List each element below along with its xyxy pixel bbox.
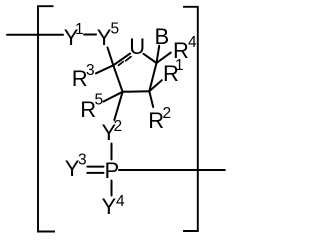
node Y1 — [64, 21, 84, 50]
svg-text:5: 5 — [111, 21, 120, 38]
node R3 — [72, 62, 95, 91]
svg-text:1: 1 — [175, 57, 184, 74]
node Y4 — [102, 193, 126, 219]
svg-text:2: 2 — [163, 105, 172, 122]
svg-text:3: 3 — [78, 152, 87, 169]
wire Y1-Y5 bond — [84, 34, 96, 36]
node R1 — [163, 57, 184, 86]
wire P chain bond (right) — [119, 169, 225, 171]
svg-text:Y: Y — [102, 194, 117, 219]
wire Y5-C2 bond — [108, 48, 114, 66]
wire ring bond C3-C4 — [123, 90, 150, 93]
wire R4-C5 bond — [157, 53, 171, 63]
wire C3-Y2 bond — [114, 92, 122, 120]
wire P-Y4 bond — [111, 181, 113, 196]
wire ring bond C4-C5 — [149, 63, 156, 91]
wire R5-C3 bond — [104, 92, 123, 102]
node Y3 — [65, 152, 87, 182]
wire Y3=P double bond lower — [87, 172, 103, 174]
node Y2 — [102, 118, 123, 145]
left bracket — [38, 6, 54, 231]
wire ring bond C2-C3 — [113, 65, 122, 92]
svg-text:4: 4 — [116, 193, 125, 210]
wire C2=U inner stroke a — [118, 62, 123, 66]
wire R1-C4 bond — [149, 80, 162, 91]
svg-text:3: 3 — [86, 62, 95, 79]
node U — [129, 34, 145, 59]
wire C2=U inner stroke b — [126, 57, 131, 61]
wire R2-C4 bond — [149, 91, 153, 107]
svg-text:4: 4 — [188, 34, 197, 51]
wire R3-C2 bond — [96, 65, 113, 73]
node R2 — [148, 105, 171, 133]
wire Y2-P bond — [111, 144, 113, 160]
svg-text:P: P — [105, 158, 120, 183]
node R4 — [173, 34, 197, 63]
node P — [105, 158, 120, 183]
svg-text:5: 5 — [95, 92, 104, 109]
wire ring bond C2=U main — [113, 54, 130, 66]
node Y5 — [97, 21, 119, 51]
svg-text:1: 1 — [75, 21, 84, 38]
svg-text:B: B — [155, 24, 170, 49]
wire ring bond C5-U — [144, 54, 157, 63]
node R5 — [80, 92, 103, 123]
svg-text:2: 2 — [114, 118, 123, 135]
wire Y3=P double bond upper — [87, 166, 103, 168]
node B — [155, 24, 170, 49]
wire polymer chain bond (left) — [7, 34, 63, 36]
right bracket — [184, 7, 198, 231]
svg-text:U: U — [129, 34, 145, 59]
wire B-C5 bond — [157, 46, 160, 63]
